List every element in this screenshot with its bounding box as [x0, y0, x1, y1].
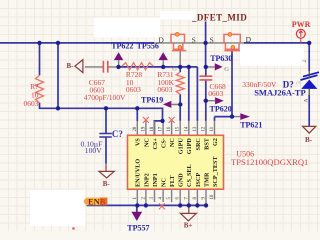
svg-text:15: 15 [176, 126, 181, 131]
svg-text:GND: GND [178, 173, 185, 187]
svg-text:4700pF/100V: 4700pF/100V [84, 93, 126, 102]
svg-text:VS: VS [135, 138, 142, 146]
svg-text:(0): (0) [296, 80, 302, 85]
svg-text:14: 14 [184, 126, 189, 131]
svg-text:S: S [210, 35, 214, 44]
svg-text:TP619: TP619 [141, 96, 163, 105]
svg-text:TP557: TP557 [127, 223, 149, 231]
svg-text:G2: G2 [212, 138, 219, 146]
svg-text:TP621: TP621 [240, 121, 262, 130]
svg-text:NC: NC [143, 138, 150, 147]
svg-text:INP1: INP1 [152, 173, 159, 187]
svg-text:TPS12100QDGXRQ1: TPS12100QDGXRQ1 [231, 157, 308, 167]
svg-text:G: G [172, 66, 177, 73]
svg-text:0603: 0603 [208, 89, 223, 98]
svg-text:10: 10 [210, 194, 215, 199]
svg-text:11: 11 [210, 126, 215, 131]
svg-text:CS-: CS- [161, 138, 168, 148]
svg-text:19: 19 [141, 126, 146, 131]
svg-text:SMAJ26A-TP: SMAJ26A-TP [254, 88, 305, 98]
svg-text:0603: 0603 [157, 85, 172, 94]
svg-text:0603: 0603 [126, 85, 141, 94]
svg-text:17: 17 [159, 126, 164, 131]
svg-text:18: 18 [150, 126, 155, 131]
svg-text:TP556: TP556 [137, 41, 159, 50]
svg-text:12: 12 [202, 126, 207, 131]
svg-text:13: 13 [193, 126, 198, 131]
svg-text:SCP_TEST: SCP_TEST [212, 156, 219, 187]
svg-text:16: 16 [167, 126, 172, 131]
svg-text:NC: NC [161, 178, 168, 187]
svg-text:0603: 0603 [24, 99, 39, 108]
svg-text:TP622: TP622 [111, 41, 133, 50]
svg-text:B+: B+ [184, 221, 193, 229]
svg-text:D: D [158, 35, 164, 44]
svg-text:B-: B- [103, 180, 111, 188]
svg-text:C?: C? [112, 129, 123, 139]
svg-text:B-: B- [67, 62, 75, 70]
svg-text:CS_SEL: CS_SEL [186, 164, 193, 187]
svg-text:G1PD: G1PD [186, 138, 193, 155]
svg-text:PWR: PWR [292, 20, 311, 29]
svg-text:FLT: FLT [169, 175, 176, 187]
svg-text:SRC: SRC [195, 138, 202, 150]
svg-text:_DFET_MID: _DFET_MID [191, 12, 247, 22]
svg-text:100V: 100V [85, 146, 102, 155]
svg-text:NC: NC [169, 138, 176, 147]
svg-text:BST: BST [203, 137, 210, 150]
svg-text:TP620: TP620 [210, 105, 232, 114]
svg-text:ISCP: ISCP [195, 173, 202, 187]
svg-text:B-: B- [305, 136, 313, 144]
svg-text:G: G [224, 66, 229, 73]
svg-text:EN/UVLO: EN/UVLO [135, 159, 142, 187]
svg-text:S: S [192, 35, 196, 44]
svg-text:INP2: INP2 [143, 173, 150, 187]
svg-text:TP630: TP630 [210, 54, 232, 63]
svg-text:CS+: CS+ [152, 138, 159, 150]
svg-text:D: D [246, 35, 252, 44]
svg-text:20: 20 [133, 126, 138, 131]
svg-text:G1PU: G1PU [178, 138, 185, 155]
svg-text:A: A [304, 99, 310, 103]
svg-text:TMR: TMR [203, 172, 210, 187]
